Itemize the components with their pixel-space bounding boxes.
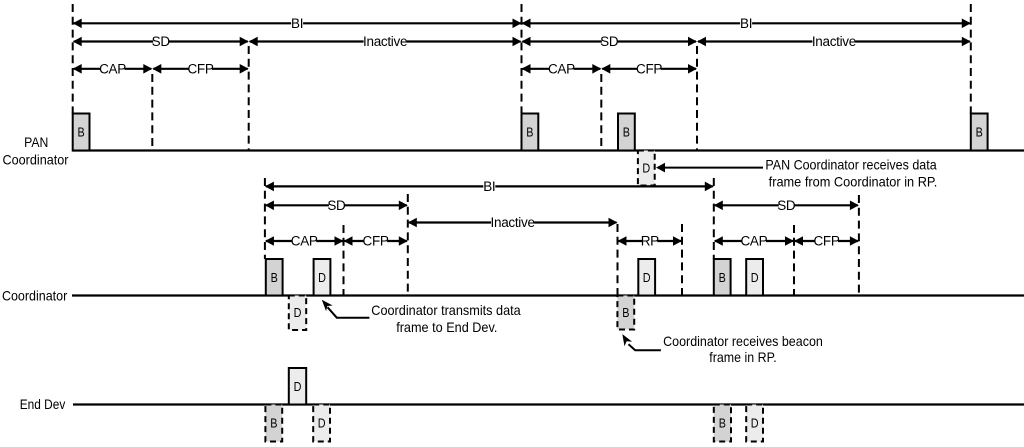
arrow CAP (Coordinator superframe 1) [265,234,344,249]
svg-text:D: D [318,270,326,285]
annotation leader arrow: Coordinator transmits data [322,300,370,318]
svg-text:D: D [294,305,302,320]
PAN superframe 1 start boundary [72,4,74,114]
arrow SD (PAN superframe 2) [522,34,698,49]
svg-text:D: D [643,270,651,285]
data D (Coordinator tx, superframe 2) [746,259,763,296]
arrow CFP (PAN superframe 2) [601,61,697,76]
arrow CFP (PAN superframe 1) [152,61,248,76]
arrow CFP (Coordinator superframe 1) [344,234,408,249]
data D (Coordinator rx from End Dev, dashed) [289,296,306,331]
arrow SD (Coordinator superframe 2) [714,198,859,213]
svg-text:PAN Coordinator receives data: PAN Coordinator receives data [765,157,936,173]
Coordinator SD end boundary 2 [858,195,860,296]
svg-text:Coordinator: Coordinator [2,287,68,303]
beacon B (End Dev rx, superframe 1, dashed) [265,405,282,442]
arrow BI (PAN superframe 1) [73,16,522,31]
svg-text:Inactive: Inactive [363,34,407,49]
Coordinator CAP/CFP boundary 1 [343,225,345,296]
PAN CAP/CFP boundary 2 [600,74,602,151]
beacon B (PAN tx, superframe 1) [73,114,90,151]
svg-text:B: B [719,270,726,285]
arrow SD (Coordinator superframe 1) [265,198,408,213]
arrow CAP (PAN superframe 2) [522,61,602,76]
arrow Inactive (Coordinator) [408,215,618,230]
svg-text:D: D [751,416,759,431]
svg-text:BI: BI [291,16,303,31]
Coordinator timeline [72,294,1024,296]
Coordinator RP start boundary [617,224,619,296]
svg-text:Inactive: Inactive [491,215,535,230]
svg-text:B: B [719,416,726,431]
PAN SD end boundary 1 [248,46,250,151]
Coordinator CAP/CFP boundary 2 [793,225,795,296]
svg-text:CFP: CFP [813,234,839,249]
svg-text:BI: BI [740,16,752,31]
beacon B (PAN tx, superframe 3) [971,114,988,151]
data D (Coordinator tx to End Dev) [314,259,331,296]
svg-text:frame to End Dev.: frame to End Dev. [396,319,497,335]
svg-text:SD: SD [600,34,619,49]
annotation leader arrow: Coordinator receives beacon [622,334,661,350]
data D (End Dev rx from Coordinator, dashed) [313,405,330,442]
svg-text:B: B [623,125,630,140]
svg-text:CFP: CFP [187,61,213,76]
PAN superframe 3 start boundary [970,4,972,114]
beacon B (Coordinator rx in RP, dashed) [617,296,634,330]
data D (PAN rx from Coordinator, dashed) [638,151,655,186]
svg-text:frame in RP.: frame in RP. [709,349,776,365]
svg-text:End Dev: End Dev [20,396,66,412]
svg-text:CAP: CAP [99,61,126,76]
PAN SD end boundary 2 [696,46,698,151]
data D (End Dev tx to Coordinator) [289,368,306,405]
Coordinator superframe 2 start boundary [713,178,715,259]
svg-text:SD: SD [777,198,796,213]
svg-text:PAN: PAN [24,134,48,150]
svg-text:B: B [622,305,629,320]
svg-text:SD: SD [152,34,171,49]
svg-text:D: D [642,161,650,176]
svg-text:B: B [78,125,85,140]
svg-text:Coordinator transmits data: Coordinator transmits data [371,302,521,318]
svg-text:CAP: CAP [291,234,318,249]
arrow Inactive (PAN superframe 1) [249,34,522,49]
arrow RP (Coordinator) [618,234,683,249]
svg-text:Coordinator receives beacon: Coordinator receives beacon [663,333,823,349]
beacon B (Coordinator tx, superframe 1) [266,259,283,296]
svg-text:frame from Coordinator in RP.: frame from Coordinator in RP. [769,173,938,189]
svg-text:B: B [976,125,983,140]
svg-text:Inactive: Inactive [812,34,856,49]
data D (End Dev rx, superframe 2, dashed) [746,405,763,442]
svg-text:CFP: CFP [363,234,389,249]
svg-text:CAP: CAP [548,61,575,76]
End Dev timeline [73,403,1024,405]
PAN Coordinator timeline [72,149,1024,151]
svg-text:Coordinator: Coordinator [3,152,69,168]
PAN superframe 2 start boundary [521,4,523,114]
Coordinator RP end boundary [681,224,683,296]
svg-text:SD: SD [327,198,346,213]
svg-text:BI: BI [483,179,495,194]
svg-text:D: D [294,379,302,394]
arrow CFP (Coordinator superframe 2) [794,234,859,249]
arrow BI (PAN superframe 2) [522,16,971,31]
beacon B (PAN tx, in coordinator RP) [618,114,635,151]
svg-text:B: B [526,125,533,140]
svg-text:RP: RP [641,234,659,249]
arrow CAP (Coordinator superframe 2) [714,234,794,249]
beacon B (End Dev rx, superframe 2, dashed) [714,405,731,442]
Coordinator SD end boundary 1 [407,194,409,296]
annotation leader arrow: PAN Coordinator receives data [656,163,763,173]
beacon B (Coordinator tx, superframe 2) [714,259,731,296]
arrow BI (Coordinator) [265,179,714,194]
data D (Coordinator tx to PAN in RP) [638,259,655,296]
svg-text:D: D [751,270,759,285]
svg-text:CFP: CFP [636,61,662,76]
beacon B (PAN tx, superframe 2) [522,114,539,151]
arrow CAP (PAN superframe 1) [73,61,153,76]
PAN CAP/CFP boundary 1 [151,74,153,151]
svg-text:CAP: CAP [740,234,767,249]
arrow Inactive (PAN superframe 2) [697,34,971,49]
arrow SD (PAN superframe 1) [73,34,249,49]
Coordinator superframe start boundary [264,178,266,259]
svg-text:B: B [270,416,277,431]
svg-text:B: B [271,270,278,285]
svg-text:D: D [318,416,326,431]
